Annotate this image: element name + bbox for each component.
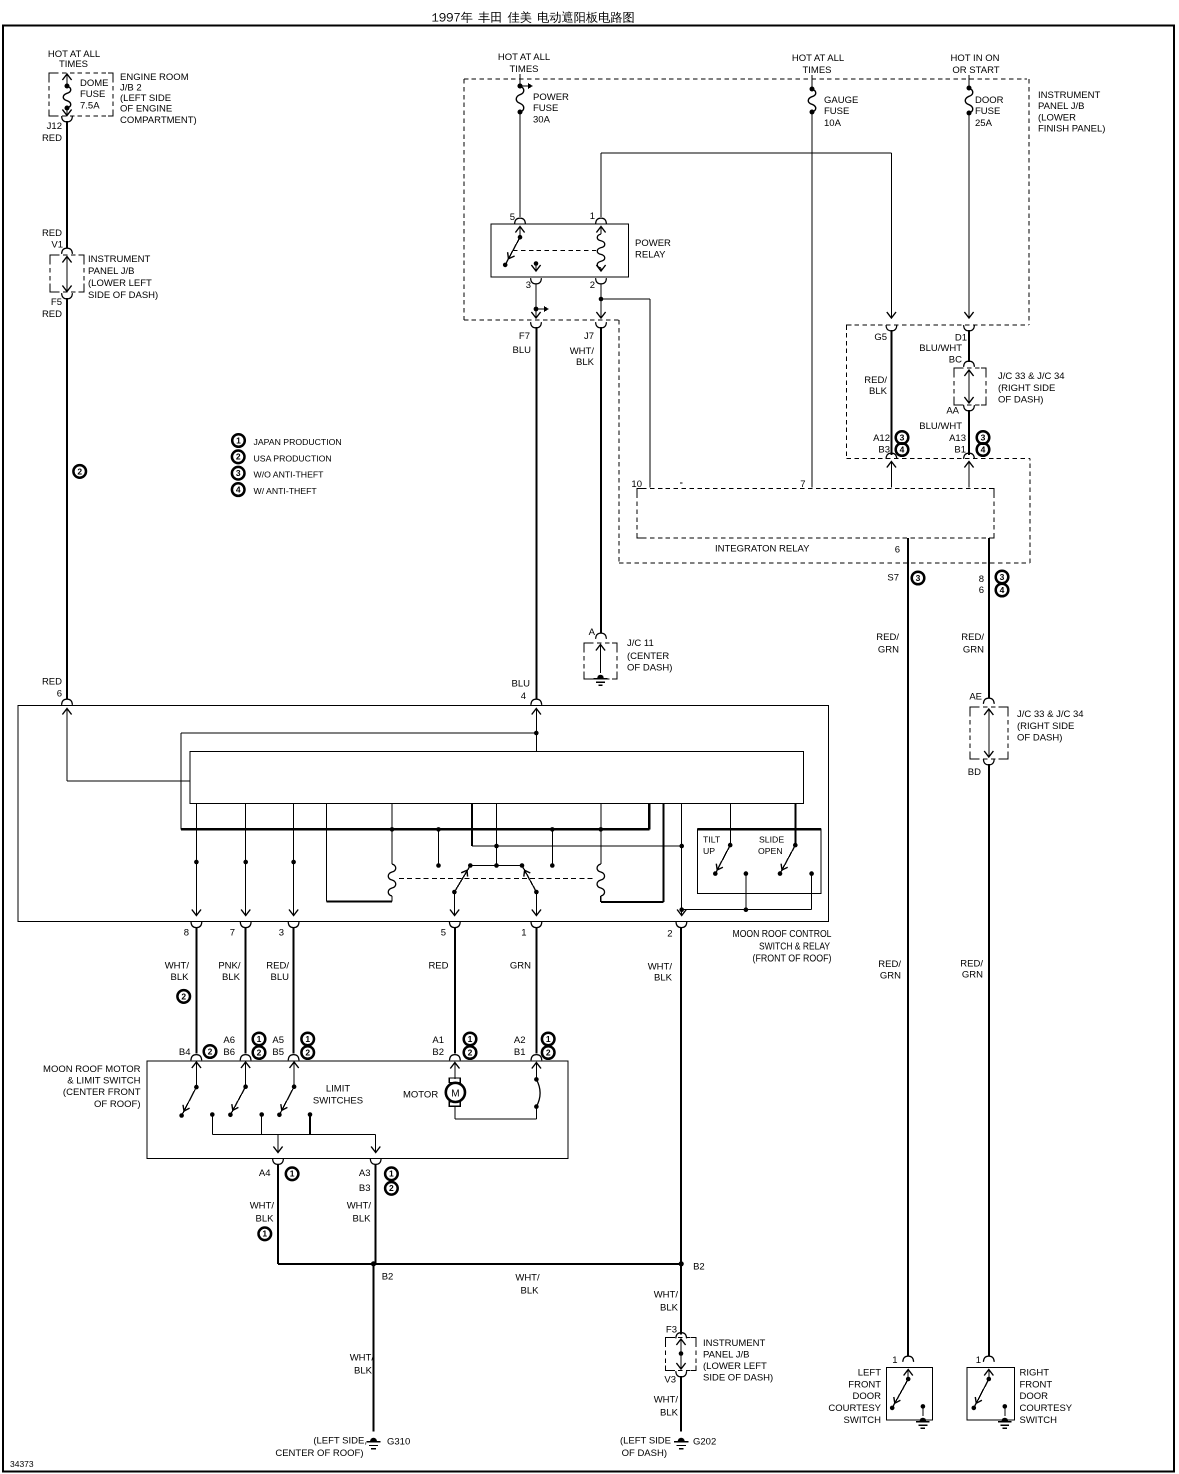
svg-text:8: 8 (184, 928, 189, 939)
label LIMIT SWITCHES (313, 1084, 363, 1107)
svg-text:RED: RED (428, 961, 448, 972)
svg-text:J/B 2: J/B 2 (120, 83, 142, 94)
svg-text:BLK: BLK (521, 1286, 540, 1297)
connector 7 cup and label (230, 922, 251, 939)
label RED/BLK (864, 375, 887, 397)
svg-text:BLU/WHT: BLU/WHT (919, 343, 962, 354)
svg-text:V3: V3 (664, 1375, 676, 1386)
left courtesy switch ground (916, 1404, 930, 1428)
svg-text:RIGHT: RIGHT (1020, 1368, 1050, 1379)
svg-text:BLK: BLK (354, 1366, 373, 1377)
svg-text:3: 3 (981, 432, 986, 442)
svg-text:CENTER OF ROOF): CENTER OF ROOF) (275, 1448, 363, 1459)
branch dot and arrow at power fuse (518, 83, 533, 89)
power relay pin 5 (510, 212, 526, 233)
svg-text:BLK: BLK (256, 1214, 275, 1225)
label RED/GRN left upper (876, 632, 899, 656)
svg-text:4: 4 (236, 485, 241, 495)
svg-text:A1: A1 (432, 1035, 444, 1046)
moon roof motor and limit switch box (147, 1061, 568, 1159)
svg-text:WHT/: WHT/ (515, 1273, 540, 1284)
svg-text:W/ ANTI-THEFT: W/ ANTI-THEFT (254, 486, 318, 496)
main switch pivot bar (468, 863, 524, 868)
label S7 with circle 3 (887, 572, 924, 585)
svg-text:SIDE OF DASH): SIDE OF DASH) (703, 1373, 773, 1384)
svg-text:3: 3 (916, 573, 921, 583)
relay coil 2 return L wire (601, 804, 664, 903)
label pins 8 6 with circles 3 4 (979, 571, 1009, 597)
svg-text:10A: 10A (824, 118, 842, 129)
label BLU 4 (512, 679, 531, 703)
label RED/GRN right upper (961, 632, 984, 656)
svg-text:FRONT: FRONT (1020, 1380, 1053, 1391)
connector B4 cup (179, 1045, 216, 1060)
label MOON ROOF CONTROL SWITCH & RELAY (FRONT OF ROOF) (733, 929, 832, 965)
label RED 6 (42, 677, 62, 700)
branch dot and arrow at relay pin 3 wire (531, 284, 549, 318)
svg-text:OF DASH): OF DASH) (998, 395, 1043, 406)
wire RED/BLK G5 to A12/B3 (890, 330, 892, 455)
svg-text:TIMES: TIMES (509, 64, 538, 75)
wire power relay pin 1 to instrument panel (horizontal feed) (601, 153, 891, 217)
svg-text:POWER: POWER (635, 238, 671, 249)
connector A4 cup (259, 1159, 299, 1181)
svg-text:2: 2 (590, 280, 595, 291)
svg-text:RED/: RED/ (878, 959, 901, 970)
svg-text:B4: B4 (179, 1047, 191, 1058)
wire BLU F7 down to moon roof control connector 4 (535, 327, 537, 699)
connector J7 (570, 322, 607, 368)
fuse POWER FUSE 30A (516, 84, 524, 218)
legend circle 2 USA PRODUCTION (232, 451, 332, 464)
anti-theft note circles at A12/B3 (896, 431, 909, 456)
wire RED connector 5 to A1/B2 (454, 927, 456, 1054)
limit switch 2 (228, 1062, 250, 1117)
title 1997 Toyota Camry power sunroof circuit diagram (432, 11, 633, 23)
svg-text:(CENTER FRONT: (CENTER FRONT (63, 1087, 141, 1098)
svg-text:J/C 33 & J/C 34: J/C 33 & J/C 34 (998, 371, 1065, 382)
svg-text:OF DASH): OF DASH) (1017, 733, 1062, 744)
svg-text:BLK: BLK (171, 972, 190, 983)
moon roof control switch and relay box (18, 706, 829, 922)
svg-text:HOT IN ON: HOT IN ON (951, 53, 1000, 64)
connector 6 on moon roof box (62, 699, 73, 714)
limit switch 1 (179, 1062, 201, 1118)
tilt up switch (713, 843, 733, 876)
left front door courtesy switch box (886, 1368, 932, 1420)
svg-text:2: 2 (181, 991, 186, 1001)
svg-text:5: 5 (510, 212, 515, 223)
svg-text:SWITCHES: SWITCHES (313, 1096, 363, 1107)
connector 5 cup and label (441, 922, 460, 939)
label INTEGRATON RELAY and pin 6 (715, 544, 900, 556)
fuse DOOR FUSE 25A (964, 75, 973, 318)
wire WHT/BLK J7 down to J/C 11 (600, 327, 602, 633)
svg-text:LIMIT: LIMIT (326, 1084, 350, 1095)
connector 1 left courtesy switch (892, 1355, 913, 1366)
main switch left arm (452, 866, 470, 895)
svg-text:1: 1 (892, 1355, 897, 1366)
svg-text:G202: G202 (693, 1437, 716, 1448)
svg-text:B3: B3 (359, 1183, 371, 1194)
svg-text:WHT/: WHT/ (347, 1201, 372, 1212)
svg-text:GRN: GRN (878, 645, 899, 656)
connector V1 (62, 248, 73, 254)
connector 1 right courtesy switch (976, 1355, 994, 1366)
svg-text:WHT/: WHT/ (654, 1290, 679, 1301)
svg-text:4: 4 (521, 691, 526, 702)
F3 V3 internal wire (676, 1339, 685, 1369)
svg-text:8: 8 (979, 574, 984, 585)
tilt up switch feed (730, 804, 732, 846)
label ENGINE ROOM J/B 2 (LEFT SIDE OF ENGINE COMPARTMENT) (120, 72, 197, 126)
slide open switch (778, 843, 798, 876)
wire WHT/BLK right B2 down to F3 (680, 1264, 682, 1335)
label SLIDE OPEN (758, 835, 784, 857)
svg-text:B5: B5 (272, 1047, 284, 1058)
right front door courtesy switch box (967, 1368, 1014, 1420)
svg-text:USA PRODUCTION: USA PRODUCTION (254, 453, 332, 463)
svg-text:(LOWER: (LOWER (1038, 113, 1076, 124)
power relay pin 1 (590, 211, 607, 233)
svg-text:3: 3 (526, 280, 531, 291)
arrow into J7 (596, 312, 605, 318)
J/C 11 internal wire and ground (594, 645, 608, 686)
svg-text:1: 1 (257, 1034, 262, 1044)
wire power relay pin 2 branch (599, 284, 650, 488)
label BLU/WHT BC (919, 343, 962, 366)
wire RED F5 down to moon roof control connector 6 (66, 298, 68, 699)
label RED V1 (42, 228, 63, 251)
power relay pin 2 connector (590, 278, 607, 291)
svg-text:F5: F5 (51, 297, 62, 308)
limit switch 2 fixed contact (259, 1112, 264, 1134)
svg-text:B1: B1 (954, 445, 966, 456)
production note circle 2 on RED wire (73, 465, 86, 478)
label (LEFT SIDE, CENTER OF ROOF) (275, 1436, 367, 1459)
svg-text:GRN: GRN (962, 970, 983, 981)
instrument panel J/B dashed box (left) (50, 255, 84, 292)
wire BD down to right courtesy switch (988, 764, 990, 1357)
svg-text:SWITCH: SWITCH (844, 1415, 882, 1426)
svg-text:J12: J12 (47, 121, 62, 132)
svg-text:BLK: BLK (654, 973, 673, 984)
junction block internal wire V1-F5 (62, 257, 71, 292)
wire WHT/BLK A3 down to ground (374, 1164, 376, 1432)
junction B2 left (371, 1261, 393, 1282)
svg-text:BD: BD (968, 767, 981, 778)
pin wire to connector 8 (192, 804, 201, 916)
svg-text:A6: A6 (223, 1035, 235, 1046)
svg-text:1: 1 (468, 1034, 473, 1044)
svg-text:FRONT: FRONT (848, 1380, 881, 1391)
svg-text:UP: UP (703, 846, 715, 856)
svg-text:1: 1 (590, 211, 595, 222)
connector G5 (874, 325, 896, 343)
svg-text:FINISH PANEL): FINISH PANEL) (1038, 124, 1105, 135)
anti-theft note circles at A13/B1 (977, 431, 990, 456)
svg-text:6: 6 (979, 585, 984, 596)
wire down to connector G5 (887, 153, 896, 318)
power bus thick wire (181, 804, 649, 830)
svg-text:FUSE: FUSE (533, 103, 558, 114)
svg-text:A12: A12 (873, 433, 890, 444)
svg-text:5: 5 (441, 928, 446, 939)
svg-text:OF DASH): OF DASH) (627, 663, 672, 674)
svg-text:1: 1 (521, 928, 526, 939)
junction connector J/C 33 and J/C 34 dashed box (lower) (970, 707, 1008, 759)
label WHT/BLK above F3 (654, 1290, 679, 1314)
svg-text:7: 7 (230, 928, 235, 939)
svg-text:S7: S7 (887, 573, 899, 584)
svg-text:FUSE: FUSE (80, 89, 105, 100)
connector J12 (42, 116, 72, 144)
wire BLU into switch unit with branch (181, 709, 539, 830)
svg-text:RELAY: RELAY (635, 250, 666, 261)
figure number (10, 1459, 34, 1469)
connector V3 (664, 1371, 686, 1385)
label WHT/BLK on A3 wire (347, 1201, 372, 1225)
engine room J/B 2 dashed box (49, 73, 113, 116)
svg-text:F3: F3 (666, 1325, 677, 1336)
right courtesy switch ground (998, 1404, 1012, 1428)
label J/C 33 and J/C 34 (RIGHT SIDE OF DASH) upper (998, 371, 1065, 406)
svg-text:ENGINE ROOM: ENGINE ROOM (120, 72, 189, 83)
svg-text:SWITCH: SWITCH (1020, 1415, 1058, 1426)
svg-text:10: 10 (631, 479, 642, 490)
label INSTRUMENT PANEL J/B (LOWER LEFT SIDE OF DASH) lower (703, 1338, 773, 1384)
svg-text:3: 3 (279, 928, 284, 939)
svg-text:2: 2 (667, 929, 672, 940)
svg-text:BLK: BLK (576, 357, 595, 368)
svg-text:30A: 30A (533, 115, 551, 126)
wire GRN connector 1 to A2/B1 (535, 927, 537, 1054)
junction B2 right (679, 1261, 705, 1272)
wire to connector 5 (450, 892, 459, 916)
svg-text:J/C 33 & J/C 34: J/C 33 & J/C 34 (1017, 709, 1084, 720)
svg-text:34373: 34373 (10, 1459, 34, 1469)
svg-text:2: 2 (77, 466, 82, 476)
wire WHT/BLK V3 to ground (680, 1376, 682, 1432)
integration relay pin 4 tick (680, 482, 683, 484)
svg-text:WHT/: WHT/ (350, 1353, 375, 1364)
svg-text:(RIGHT SIDE: (RIGHT SIDE (1017, 721, 1074, 732)
label J/C 11 (CENTER OF DASH) (627, 638, 672, 674)
svg-text:B2: B2 (382, 1272, 394, 1283)
connector A at J/C 11 (589, 627, 607, 639)
wire integration relay right output down (RED/GRN right) (988, 538, 990, 698)
wire to connector 1 (532, 892, 541, 916)
svg-text:1: 1 (236, 435, 241, 445)
tilt and slide switch box (698, 829, 821, 894)
integration relay pin 7 (800, 479, 805, 490)
connector 4 on moon roof box (531, 699, 542, 714)
svg-text:OF ENGINE: OF ENGINE (120, 104, 172, 115)
svg-text:A4: A4 (259, 1168, 271, 1179)
svg-text:MOON ROOF MOTOR: MOON ROOF MOTOR (43, 1064, 141, 1075)
svg-text:COURTESY: COURTESY (828, 1403, 881, 1414)
svg-text:RED: RED (42, 677, 62, 688)
svg-text:1: 1 (546, 1034, 551, 1044)
wire bus to connector A3 (371, 1135, 380, 1153)
svg-text:SLIDE: SLIDE (759, 835, 784, 845)
svg-text:2: 2 (236, 452, 241, 462)
integration relay dashed box (637, 489, 994, 539)
limit switch 1 fixed contact (210, 1112, 215, 1134)
svg-text:PNK/: PNK/ (218, 961, 241, 972)
mechanical link dashed line between coils and switch (399, 878, 593, 880)
svg-text:INTEGRATON RELAY: INTEGRATON RELAY (715, 544, 810, 555)
svg-text:2: 2 (468, 1047, 473, 1057)
connector BC (964, 361, 975, 367)
label TILT UP (703, 835, 721, 857)
switch common feed thick pin (472, 804, 684, 849)
svg-text:4: 4 (1000, 585, 1005, 595)
svg-text:POWER: POWER (533, 92, 569, 103)
svg-text:BLK: BLK (660, 1408, 679, 1419)
label WHT/BLK with circle 2 (165, 961, 190, 1003)
svg-text:MOTOR: MOTOR (403, 1090, 438, 1101)
svg-text:3: 3 (236, 468, 241, 478)
svg-text:BLK: BLK (353, 1214, 372, 1225)
label POWER RELAY (635, 238, 671, 261)
wire BLU/WHT AA to A13/B1 (919, 410, 969, 455)
svg-text:(LEFT SIDE: (LEFT SIDE (620, 1436, 671, 1447)
svg-text:DOOR: DOOR (975, 95, 1004, 106)
svg-text:HOT AT ALL: HOT AT ALL (498, 52, 550, 63)
svg-text:GRN: GRN (880, 971, 901, 982)
J/C 33 34 internal double arrow (upper) (964, 370, 973, 403)
legend circle 3 W/O ANTI-THEFT (232, 467, 324, 480)
connector BD (968, 759, 994, 778)
label RIGHT FRONT DOOR COURTESY SWITCH (1020, 1368, 1073, 1427)
connector AE (969, 692, 994, 704)
junction connector J/C 33 and J/C 34 dashed box (upper) (954, 368, 986, 405)
svg-text:OF ROOF): OF ROOF) (94, 1099, 140, 1110)
wire to connector 2 with junctions (677, 804, 686, 916)
pin wire to connector 7 (241, 804, 250, 916)
connector AA (946, 405, 974, 416)
power relay pin 3 internal (531, 261, 540, 271)
svg-text:GAUGE: GAUGE (824, 95, 858, 106)
label J/C 33 and J/C 34 (RIGHT SIDE OF DASH) lower (1017, 709, 1084, 744)
svg-text:G310: G310 (387, 1437, 410, 1448)
svg-text:LEFT: LEFT (858, 1368, 881, 1379)
svg-text:RED/: RED/ (876, 632, 899, 643)
wire RED J12 to V1 (66, 121, 68, 248)
wire WHT/BLK connector 2 down to B2 junction (680, 927, 682, 1264)
svg-text:DOOR: DOOR (1020, 1391, 1049, 1402)
svg-text:RED/: RED/ (961, 632, 984, 643)
svg-text:WHT/: WHT/ (570, 346, 595, 357)
svg-text:3: 3 (1000, 572, 1005, 582)
svg-text:RED/: RED/ (864, 375, 887, 386)
svg-text:7.5A: 7.5A (80, 101, 100, 112)
label WHT/BLK on connector 2 wire (648, 962, 673, 984)
svg-text:A3: A3 (359, 1168, 371, 1179)
svg-text:WHT/: WHT/ (654, 1395, 679, 1406)
svg-text:AE: AE (969, 692, 982, 703)
svg-text:1: 1 (389, 1169, 394, 1179)
label RED/GRN right lower (960, 959, 983, 981)
svg-text:FUSE: FUSE (975, 106, 1000, 117)
wire integration relay pin 6 down (RED/GRN left) (907, 538, 909, 1356)
bus junction dots (390, 827, 603, 832)
svg-text:PANEL J/B: PANEL J/B (1038, 101, 1084, 112)
svg-text:(FRONT OF ROOF): (FRONT OF ROOF) (753, 954, 832, 965)
svg-text:SIDE OF DASH): SIDE OF DASH) (88, 290, 158, 301)
svg-text:2: 2 (208, 1046, 213, 1056)
svg-text:6: 6 (57, 689, 62, 700)
svg-text:(LEFT SIDE: (LEFT SIDE (120, 93, 171, 104)
connector A5 B5 cup (272, 1033, 314, 1061)
svg-text:A: A (589, 627, 596, 638)
svg-text:JAPAN PRODUCTION: JAPAN PRODUCTION (254, 437, 342, 447)
svg-text:B2: B2 (693, 1262, 705, 1273)
svg-text:B6: B6 (223, 1047, 235, 1058)
connector 3 cup and label (279, 922, 299, 939)
svg-text:TIMES: TIMES (802, 65, 831, 76)
label WHT/BLK on ground wire (350, 1353, 375, 1377)
svg-text:TILT: TILT (703, 835, 721, 845)
ground G202 (674, 1437, 716, 1449)
label RED/GRN left lower (878, 959, 901, 982)
svg-text:1: 1 (976, 1355, 981, 1366)
connector 2 cup and label (667, 922, 687, 940)
wire B3 to integration relay (887, 462, 896, 488)
label DOOR FUSE 25A (975, 95, 1004, 129)
label HOT AT ALL TIMES (gauge fuse) (792, 53, 844, 76)
svg-text:OF DASH): OF DASH) (622, 1448, 667, 1459)
label HOT IN ON OR START (951, 53, 1000, 76)
label WHT/BLK on B2 wire (515, 1273, 540, 1297)
svg-text:(LEFT SIDE,: (LEFT SIDE, (313, 1436, 367, 1447)
svg-text:B1: B1 (514, 1047, 526, 1058)
svg-text:RED/: RED/ (266, 961, 289, 972)
svg-text:DOOR: DOOR (853, 1391, 882, 1402)
svg-text:RED: RED (42, 309, 62, 320)
ground G310 (366, 1437, 410, 1449)
svg-text:WHT/: WHT/ (250, 1201, 275, 1212)
svg-text:TIMES: TIMES (59, 59, 88, 70)
label RED (428, 961, 448, 972)
svg-text:J7: J7 (584, 331, 594, 342)
svg-text:INSTRUMENT: INSTRUMENT (1038, 90, 1100, 101)
svg-text:OR START: OR START (952, 65, 999, 76)
relay coil 1 feed L wire (327, 804, 392, 902)
connector F5 (42, 293, 72, 320)
connector F3 (666, 1325, 687, 1339)
svg-text:BLK: BLK (869, 386, 888, 397)
label MOON ROOF MOTOR & LIMIT SWITCH (CENTER FRONT OF ROOF) (43, 1064, 141, 1110)
svg-text:WHT/: WHT/ (165, 961, 190, 972)
label HOT AT ALL TIMES (power fuse) (498, 52, 550, 75)
svg-text:BLU/WHT: BLU/WHT (919, 421, 962, 432)
label MOTOR (403, 1090, 438, 1101)
power relay coil (596, 227, 605, 272)
power relay actuation dashed link (513, 250, 596, 252)
stub contact left of main switch (436, 829, 441, 867)
fuse DOME FUSE 7.5A (62, 74, 71, 116)
svg-text:M: M (451, 1088, 459, 1099)
motor M symbol (446, 1063, 465, 1119)
svg-text:F7: F7 (519, 331, 530, 342)
svg-text:J/C 11: J/C 11 (627, 638, 654, 649)
connector 8 cup and label (184, 922, 202, 939)
right courtesy switch (972, 1370, 994, 1411)
svg-text:25A: 25A (975, 118, 993, 129)
svg-text:OPEN: OPEN (758, 846, 783, 856)
